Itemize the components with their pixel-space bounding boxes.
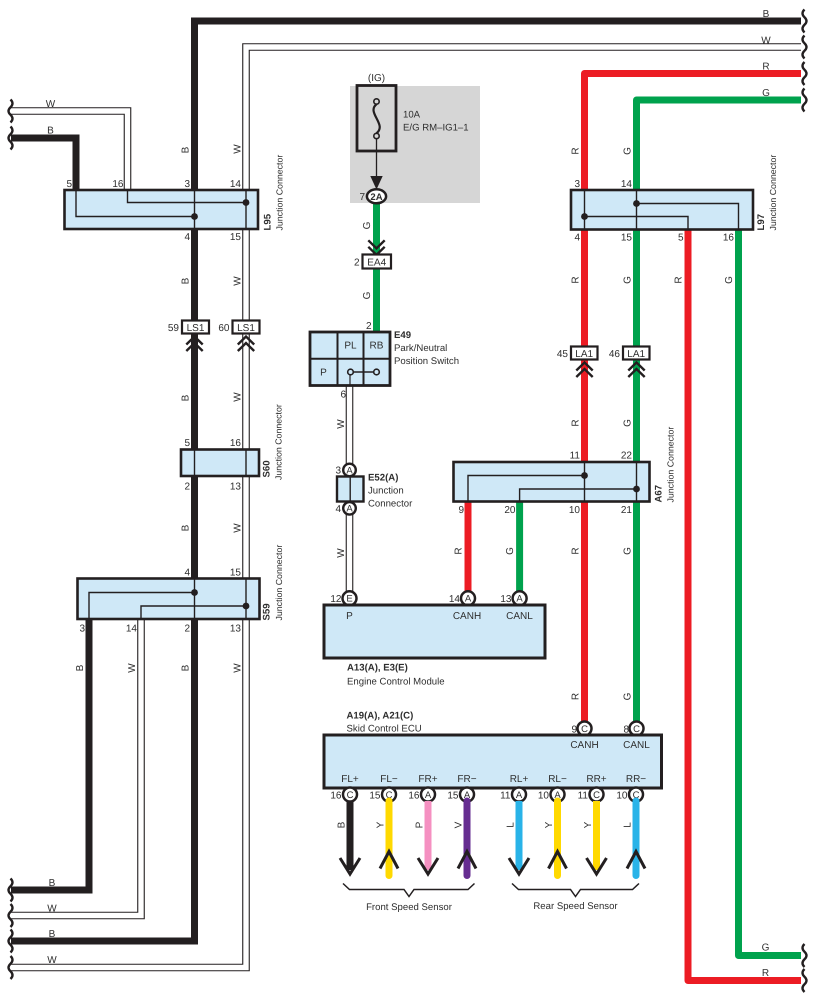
svg-text:B: B: [181, 146, 192, 153]
svg-text:W: W: [46, 99, 56, 110]
svg-text:A: A: [425, 790, 432, 801]
svg-text:2: 2: [184, 624, 190, 635]
wire V front-right speed sensor FR-: [454, 801, 477, 876]
svg-text:R: R: [674, 276, 685, 283]
svg-text:11: 11: [570, 451, 581, 462]
svg-text:W: W: [336, 548, 347, 558]
svg-text:15: 15: [369, 791, 381, 802]
svg-text:G: G: [623, 276, 634, 284]
svg-text:P: P: [346, 611, 353, 622]
svg-text:B: B: [181, 394, 192, 401]
svg-text:B: B: [181, 277, 192, 284]
svg-text:22: 22: [621, 451, 633, 462]
svg-text:W: W: [336, 419, 347, 429]
svg-text:Junction Connector: Junction Connector: [274, 404, 284, 480]
front speed sensor brace and label: [343, 884, 475, 914]
svg-text:Position Switch: Position Switch: [394, 356, 459, 367]
svg-text:4: 4: [574, 233, 580, 244]
svg-text:Junction Connector: Junction Connector: [275, 155, 285, 231]
wire G branch L97 pin 16: [724, 230, 807, 968]
svg-text:60: 60: [218, 323, 230, 334]
svg-text:16: 16: [723, 233, 735, 244]
svg-text:Y: Y: [583, 821, 594, 828]
svg-text:Engine Control Module: Engine Control Module: [347, 677, 445, 688]
svg-text:3: 3: [335, 466, 341, 477]
svg-text:S60: S60: [262, 460, 273, 477]
svg-text:14: 14: [126, 624, 138, 635]
svg-text:A: A: [346, 504, 353, 515]
svg-text:C: C: [347, 790, 354, 801]
wire L rear-left speed sensor RL+: [506, 801, 530, 874]
svg-text:(IG): (IG): [368, 73, 385, 84]
svg-text:Y: Y: [544, 821, 555, 828]
svg-text:B: B: [763, 9, 770, 20]
wire R branch A67 pin 9 to ECM CANH: [454, 502, 469, 593]
svg-text:12: 12: [330, 594, 342, 605]
svg-text:4: 4: [335, 504, 341, 515]
connector LS1 (pin 60) with chevron: [218, 321, 259, 352]
svg-text:Rear Speed Sensor: Rear Speed Sensor: [533, 901, 618, 912]
svg-text:15: 15: [230, 232, 242, 243]
wire B branch S59 pin 3: [9, 619, 90, 902]
junction connector L97: [571, 155, 778, 244]
svg-text:15: 15: [230, 568, 242, 579]
svg-text:16: 16: [330, 791, 342, 802]
svg-text:CANH: CANH: [570, 740, 598, 751]
svg-text:10: 10: [616, 791, 628, 802]
svg-text:Junction Connector: Junction Connector: [768, 155, 778, 231]
svg-text:B: B: [75, 664, 86, 671]
svg-text:3: 3: [574, 179, 580, 190]
svg-text:11: 11: [500, 791, 511, 802]
wire Y rear-right speed sensor RR+: [583, 801, 607, 874]
svg-text:W: W: [233, 663, 244, 673]
svg-text:A67: A67: [654, 485, 665, 503]
wire R branch L97 pin 5: [674, 230, 807, 993]
svg-text:14: 14: [621, 179, 633, 190]
svg-text:W: W: [47, 955, 57, 966]
wire G main (L97 14-15, A67 22-21, to Skid ECU CANL): [623, 88, 807, 723]
svg-text:2: 2: [184, 482, 190, 493]
svg-text:46: 46: [609, 349, 621, 360]
svg-text:R: R: [762, 62, 769, 73]
svg-text:Park/Neutral: Park/Neutral: [394, 343, 447, 354]
svg-text:S59: S59: [262, 603, 273, 620]
svg-text:3: 3: [184, 179, 190, 190]
svg-text:B: B: [47, 126, 54, 137]
connector LS1 (pin 59) with chevron: [168, 321, 209, 352]
skid ECU terminal RR+ 11 (C): [578, 788, 604, 802]
wire W left entry to L95 pin 16: [9, 99, 128, 190]
svg-text:Connector: Connector: [368, 499, 413, 510]
svg-text:10A: 10A: [403, 110, 421, 121]
svg-text:RL+: RL+: [510, 774, 529, 785]
svg-text:W: W: [233, 392, 244, 402]
svg-text:G: G: [362, 221, 373, 229]
svg-text:L95: L95: [263, 213, 274, 230]
junction connector A67: [454, 427, 676, 516]
svg-text:G: G: [623, 147, 634, 155]
svg-text:16: 16: [112, 179, 124, 190]
svg-text:9: 9: [458, 505, 464, 516]
wire G ignition fuse to E49 pin 2: [362, 204, 377, 333]
svg-text:W: W: [127, 663, 138, 673]
svg-text:16: 16: [408, 791, 420, 802]
svg-text:CANL: CANL: [623, 740, 650, 751]
svg-text:E: E: [346, 594, 352, 605]
wire L rear-right speed sensor RR-: [623, 801, 646, 876]
svg-text:8: 8: [623, 725, 629, 736]
svg-text:P: P: [415, 821, 426, 828]
svg-text:R: R: [571, 419, 582, 426]
svg-text:L: L: [506, 822, 517, 828]
wire P front-right speed sensor FR+: [415, 801, 439, 874]
svg-text:21: 21: [621, 505, 633, 516]
svg-text:A: A: [346, 465, 353, 476]
svg-text:G: G: [762, 88, 770, 99]
svg-text:14: 14: [230, 179, 242, 190]
svg-text:Skid Control ECU: Skid Control ECU: [347, 724, 422, 735]
fuse block background 2A (IG): [350, 73, 480, 203]
svg-text:5: 5: [66, 179, 72, 190]
skid ECU terminal FR+ 16 (A): [408, 788, 435, 802]
svg-text:RR+: RR+: [586, 774, 606, 785]
skid ECU terminal RL- 10 (A): [538, 788, 565, 802]
junction connector S60: [181, 404, 284, 492]
svg-text:FL−: FL−: [380, 774, 398, 785]
svg-text:R: R: [571, 693, 582, 700]
wire Y front-left speed sensor FL-: [376, 801, 399, 876]
svg-text:Y: Y: [376, 821, 387, 828]
skid ECU terminal RL+ 11 (A): [500, 788, 526, 802]
svg-text:4: 4: [184, 568, 190, 579]
svg-text:Front Speed Sensor: Front Speed Sensor: [366, 902, 453, 913]
svg-text:R: R: [762, 968, 769, 979]
svg-text:G: G: [362, 291, 373, 299]
svg-text:A: A: [516, 790, 523, 801]
svg-text:C: C: [593, 790, 600, 801]
svg-text:E/G RM–IG1–1: E/G RM–IG1–1: [403, 123, 469, 134]
svg-text:15: 15: [447, 791, 459, 802]
svg-text:A: A: [465, 594, 472, 605]
svg-text:10: 10: [569, 505, 581, 516]
svg-text:G: G: [623, 692, 634, 700]
svg-text:LS1: LS1: [187, 323, 205, 334]
svg-text:FR+: FR+: [418, 774, 437, 785]
svg-text:B: B: [181, 664, 192, 671]
wire Y rear-left speed sensor RL-: [544, 801, 567, 876]
svg-text:G: G: [623, 419, 634, 427]
svg-text:3: 3: [79, 624, 85, 635]
svg-text:5: 5: [184, 438, 190, 449]
svg-text:4: 4: [184, 232, 190, 243]
svg-text:L: L: [623, 822, 634, 828]
svg-text:7: 7: [359, 192, 365, 203]
skid ECU terminal FL+ 16 (C): [330, 788, 357, 802]
wire G branch A67 pin 20 to ECM CANL: [505, 502, 520, 593]
svg-text:RL−: RL−: [548, 774, 567, 785]
svg-text:V: V: [454, 821, 465, 828]
svg-text:14: 14: [449, 594, 461, 605]
svg-text:W: W: [761, 36, 771, 47]
connector LA1 (pin 45) with chevron: [557, 347, 598, 378]
svg-text:FL+: FL+: [341, 774, 359, 785]
svg-text:LA1: LA1: [627, 349, 645, 360]
svg-text:11: 11: [578, 791, 589, 802]
svg-text:P: P: [320, 368, 327, 379]
svg-text:Junction Connector: Junction Connector: [274, 545, 284, 621]
wire W branch S59 pin 14: [9, 619, 142, 927]
svg-text:W: W: [233, 523, 244, 533]
svg-text:B: B: [337, 821, 348, 828]
wire R main (L97 3-4, A67 11-10, to Skid ECU CANH): [571, 62, 807, 723]
svg-text:CANH: CANH: [453, 611, 481, 622]
svg-text:10: 10: [538, 791, 550, 802]
svg-text:W: W: [233, 144, 244, 154]
junction connector E52(A): [335, 464, 413, 515]
svg-text:C: C: [633, 724, 640, 735]
svg-text:Junction: Junction: [368, 486, 404, 497]
svg-text:LA1: LA1: [575, 349, 593, 360]
svg-text:L97: L97: [756, 214, 767, 231]
svg-text:2: 2: [366, 321, 372, 332]
svg-text:RR−: RR−: [626, 774, 646, 785]
svg-text:R: R: [571, 147, 582, 154]
svg-text:6: 6: [340, 390, 346, 401]
svg-text:16: 16: [230, 438, 242, 449]
svg-text:B: B: [49, 929, 56, 940]
engine control module A13(A), E3(E): [324, 591, 545, 687]
wire W from E49 pin 6 through E52 to ECM pin 12: [336, 386, 350, 593]
svg-text:9: 9: [571, 725, 577, 736]
svg-text:G: G: [623, 547, 634, 555]
svg-text:R: R: [571, 276, 582, 283]
svg-text:A: A: [516, 594, 523, 605]
svg-text:2A: 2A: [370, 192, 382, 203]
svg-text:FR−: FR−: [457, 774, 476, 785]
rear speed sensor brace and label: [512, 884, 639, 913]
connector terminal 2A (pin 7): [359, 189, 386, 203]
svg-text:W: W: [47, 904, 57, 915]
svg-text:2: 2: [354, 258, 360, 269]
connector LA1 (pin 46) with chevron: [609, 347, 650, 378]
wire B left entry to L95 pin 5: [9, 126, 77, 191]
svg-text:EA4: EA4: [367, 258, 386, 269]
svg-text:R: R: [571, 547, 582, 554]
svg-text:5: 5: [678, 233, 684, 244]
svg-text:20: 20: [504, 505, 516, 516]
svg-text:A19(A), A21(C): A19(A), A21(C): [347, 711, 414, 722]
fuse 10A E/G RM-IG1-1: [357, 86, 469, 190]
junction connector S59: [78, 545, 285, 635]
svg-text:B: B: [181, 524, 192, 531]
svg-text:C: C: [581, 724, 588, 735]
svg-text:R: R: [454, 547, 465, 554]
svg-text:LS1: LS1: [237, 323, 255, 334]
connector EA4 (pin 2) with chevron: [354, 240, 391, 268]
svg-text:45: 45: [557, 349, 569, 360]
svg-text:59: 59: [168, 323, 180, 334]
svg-text:G: G: [505, 547, 516, 555]
skid control ECU A19(A), A21(C): [324, 711, 662, 789]
svg-text:W: W: [233, 276, 244, 286]
junction connector L95: [65, 155, 285, 243]
svg-text:E49: E49: [394, 330, 411, 341]
svg-text:15: 15: [621, 233, 633, 244]
park/neutral position switch E49: [310, 321, 459, 401]
skid ECU terminal RR- 10 (C): [616, 788, 643, 802]
svg-text:13: 13: [230, 482, 242, 493]
svg-text:RB: RB: [370, 341, 384, 352]
svg-text:A13(A), E3(E): A13(A), E3(E): [347, 663, 408, 674]
svg-text:Junction Connector: Junction Connector: [666, 427, 676, 503]
svg-text:E52(A): E52(A): [368, 473, 398, 484]
wire B front-left speed sensor FL+: [337, 801, 361, 874]
svg-text:G: G: [724, 276, 735, 284]
skid ECU terminal FR- 15 (A): [447, 788, 474, 802]
svg-text:13: 13: [230, 624, 242, 635]
svg-text:B: B: [49, 878, 56, 889]
svg-text:13: 13: [500, 594, 512, 605]
svg-text:CANL: CANL: [506, 611, 533, 622]
skid ECU terminal FL- 15 (C): [369, 788, 396, 802]
svg-text:PL: PL: [344, 341, 357, 352]
svg-text:G: G: [762, 943, 770, 954]
